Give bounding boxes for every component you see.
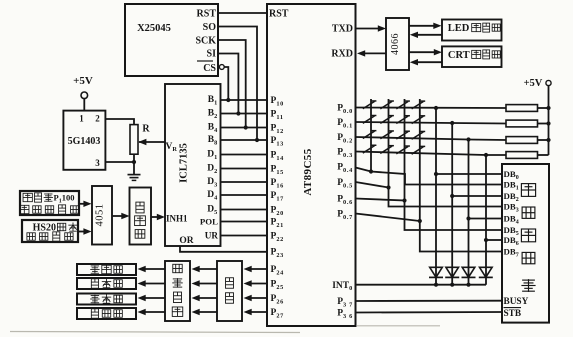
- IC U2 X25045 serial EEPROM: [125, 4, 218, 76]
- wire OR to P2.3: [180, 246, 267, 252]
- svg-text:X25045: X25045: [137, 23, 171, 34]
- power +5V terminal right: [546, 80, 551, 85]
- wire P0.4 row to printer DB1: [356, 168, 503, 185]
- IC U5 4051 analog mux: [92, 186, 112, 245]
- wire opto to driver row 4: [192, 309, 218, 315]
- svg-text:+5V: +5V: [524, 78, 543, 89]
- junction DB6: [484, 238, 488, 242]
- wire 4066 to CRT: [409, 49, 442, 55]
- wire ICL7135 pin to AT89C55 y=100: [221, 99, 268, 101]
- power +5V label right: [524, 78, 543, 89]
- wire temp sensor to 4051: [79, 201, 92, 207]
- wire ICL7135 pin to AT89C55 y=182: [221, 181, 268, 183]
- junction +5V/R1: [546, 106, 550, 110]
- U1 pin labels P0.0-P0.7 TXD RXD INT0 P3.7 P3.6: [331, 24, 353, 320]
- wire DB2 line: [452, 195, 502, 197]
- wire opto to driver row 2: [192, 280, 218, 286]
- wire SI to P1.1 node: [218, 54, 238, 114]
- wire ICL7135 pin to AT89C55 y=140: [221, 139, 268, 141]
- junction SI/P1.1: [236, 111, 240, 115]
- potentiometer R: [130, 124, 150, 155]
- wire P2.6 to opto: [244, 295, 268, 301]
- svg-text:LED: LED: [448, 23, 470, 34]
- wire driver to actuator 2: [138, 280, 166, 286]
- svg-text:BUSY: BUSY: [504, 297, 529, 307]
- wire ICL7135 pin to AT89C55 y=195: [221, 194, 268, 196]
- wire 4066 to LED: [409, 23, 442, 29]
- actuator box 2: [77, 278, 136, 289]
- wire CRT to 4066: [410, 59, 442, 65]
- wire SCK to P1.2 node: [218, 40, 246, 128]
- svg-text:4051: 4051: [95, 204, 106, 227]
- IC U6 4066 switch: [386, 18, 409, 70]
- svg-text:5G1403: 5G1403: [68, 136, 101, 147]
- svg-text:SO: SO: [203, 22, 217, 33]
- amplifier box: [130, 188, 152, 245]
- wire INT0 rail: [356, 284, 487, 286]
- junction INT0 rail: [450, 283, 454, 287]
- svg-text:RST: RST: [269, 9, 289, 20]
- svg-text:TXD: TXD: [332, 24, 353, 35]
- wire P0.6 row to printer DB5: [356, 199, 503, 231]
- wire ICL7135 pin to AT89C55 y=221.5: [221, 221, 268, 223]
- MCU U1 AT89C55: [267, 4, 356, 326]
- keypad column 2: [388, 99, 390, 188]
- svg-text:1: 1: [79, 114, 84, 124]
- wire DB6 line: [486, 239, 502, 241]
- LED display box: [442, 20, 502, 41]
- wire P2.7 to opto: [244, 309, 268, 315]
- junction P0.1 drop: [450, 121, 454, 125]
- junction column 3 / P0.6: [402, 198, 406, 202]
- actuator box 1: [77, 264, 136, 275]
- keypad column 3: [404, 99, 406, 201]
- wire P0.5 row to printer DB3: [356, 182, 503, 207]
- wire CS to P1.0 node: [224, 67, 228, 100]
- wire P0.7 row to printer DB7: [356, 214, 503, 252]
- svg-text:AT89C55: AT89C55: [302, 148, 314, 195]
- CRT display box: [442, 46, 502, 67]
- junction P0.3 drop: [484, 153, 488, 157]
- wire 4066 to RXD: [357, 50, 386, 56]
- wire amplifier to ICL7135 INH1: [151, 214, 165, 220]
- ground: [128, 175, 141, 181]
- junction column 4 / P0.7: [418, 219, 422, 223]
- wire opto to driver row 3: [192, 295, 218, 301]
- keypad column 1: [370, 99, 372, 172]
- wire column drop 4: [485, 155, 487, 285]
- junction P0.2 drop: [466, 137, 470, 141]
- wire ICL7135 pin to AT89C55 y=154.5: [221, 154, 268, 156]
- junction DB0: [434, 172, 438, 176]
- diode D1: [429, 267, 443, 277]
- svg-text:2: 2: [95, 114, 100, 124]
- wire R bottom / 5G1403 pin3: [105, 154, 136, 174]
- svg-text:STB: STB: [504, 309, 522, 319]
- wire DB0 line: [436, 173, 502, 175]
- wire SO to P1.3 node: [218, 27, 257, 141]
- wire driver to actuator 3: [138, 295, 166, 301]
- junction column 1 / P0.4: [369, 169, 373, 173]
- wire P3.7 to BUSY: [356, 300, 503, 302]
- wire ICL7135 pin to AT89C55 y=127.5: [221, 127, 268, 129]
- driver amplifier box: [165, 261, 190, 321]
- resistor pullup R4: [506, 152, 549, 159]
- wire column drop 3: [468, 140, 470, 285]
- junction column 2 / P0.5: [386, 185, 390, 189]
- actuator box 3: [77, 294, 136, 305]
- keypad key switches 4x4: [363, 101, 425, 154]
- wire RST X25045 to AT89C55: [218, 12, 267, 14]
- U1 pin labels P1.0-P2.7: [271, 96, 285, 319]
- svg-text:RXD: RXD: [331, 49, 353, 60]
- wire DB4 line: [469, 218, 503, 220]
- actuator box 4: [77, 308, 136, 319]
- resistor pullup R1: [506, 105, 549, 112]
- junction DB2: [450, 194, 454, 198]
- svg-text:+5V: +5V: [73, 75, 93, 87]
- optocoupler box: [217, 261, 242, 321]
- junction SO/P1.3: [255, 138, 259, 142]
- resistor pullup R2: [506, 120, 549, 127]
- wire P0.1 row: [356, 122, 507, 124]
- wire driver to actuator 1: [138, 266, 166, 272]
- svg-text:3: 3: [95, 158, 100, 168]
- wire P2.4 to opto: [244, 266, 268, 272]
- wire P0.2 row: [356, 137, 507, 140]
- resistor pullup R3: [506, 137, 549, 144]
- svg-text:SI: SI: [207, 49, 217, 60]
- svg-text:R: R: [142, 124, 150, 135]
- diode D2: [445, 267, 459, 277]
- wire P0.0 row: [356, 107, 507, 110]
- junction +5V/R2: [546, 121, 550, 125]
- wire 5G1403 pin2 to R top: [105, 119, 134, 125]
- power +5V terminal left: [81, 92, 88, 99]
- wire 4051 to amplifier: [112, 213, 130, 219]
- diode D3: [462, 267, 476, 277]
- svg-text:SCK: SCK: [195, 36, 216, 47]
- wire ICL7135 pin to AT89C55 y=209.5: [221, 209, 268, 211]
- svg-text:POL: POL: [200, 217, 218, 227]
- wire +5V rail right: [548, 86, 550, 155]
- power +5V label left: [73, 75, 93, 87]
- CS inverter bubble: [219, 65, 224, 70]
- sensor HS20 humidity sensor box: [22, 220, 78, 242]
- wire ICL7135 pin to AT89C55 y=235.5: [221, 235, 268, 237]
- junction INT0 rail: [466, 283, 470, 287]
- wire ICL7135 pin to AT89C55 y=168.5: [221, 168, 268, 170]
- wire driver to actuator 4: [138, 309, 166, 315]
- wire opto to driver row 1: [192, 266, 218, 272]
- IC U3 ICL7135 ADC: [165, 84, 221, 246]
- printer box (micro printer): [502, 164, 549, 323]
- junction CS/P1.0: [226, 98, 230, 102]
- junction INT0 rail: [434, 283, 438, 287]
- svg-text:INH1: INH1: [166, 214, 188, 224]
- svg-text:UR: UR: [205, 231, 219, 241]
- svg-text:ICL7135: ICL7135: [179, 143, 190, 183]
- IC U4 5G1403 voltage reference: [63, 111, 105, 170]
- junction SCK/P1.2: [244, 125, 248, 129]
- diode D4: [479, 267, 493, 277]
- sensor Pt100 temperature sensor box: [20, 191, 79, 215]
- wire column drop 2: [451, 123, 453, 285]
- wire ICL7135 pin to AT89C55 y=113.5: [221, 113, 268, 115]
- wire P0.3 row: [356, 152, 507, 156]
- junction +5V/R3: [546, 138, 550, 142]
- svg-text:OR: OR: [179, 236, 193, 246]
- svg-text:4066: 4066: [390, 33, 401, 55]
- svg-text:CRT: CRT: [448, 50, 470, 61]
- wire humidity sensor to 4051: [78, 228, 92, 234]
- junction DB4: [466, 216, 470, 220]
- svg-text:CS: CS: [203, 63, 216, 74]
- wire LED to 4066: [410, 32, 442, 38]
- junction P0.0 drop: [434, 106, 438, 110]
- wire column drop 1: [435, 108, 437, 285]
- keypad column 4: [419, 99, 421, 221]
- wire P3.6 to STB: [356, 311, 503, 314]
- wire +5V to 5G1403 pin1: [83, 99, 85, 111]
- wire R wiper to ICL7135 VR: [138, 139, 165, 145]
- wire P2.5 to opto: [244, 280, 268, 286]
- wire TXD to 4066: [356, 25, 387, 31]
- svg-text:RST: RST: [197, 9, 217, 20]
